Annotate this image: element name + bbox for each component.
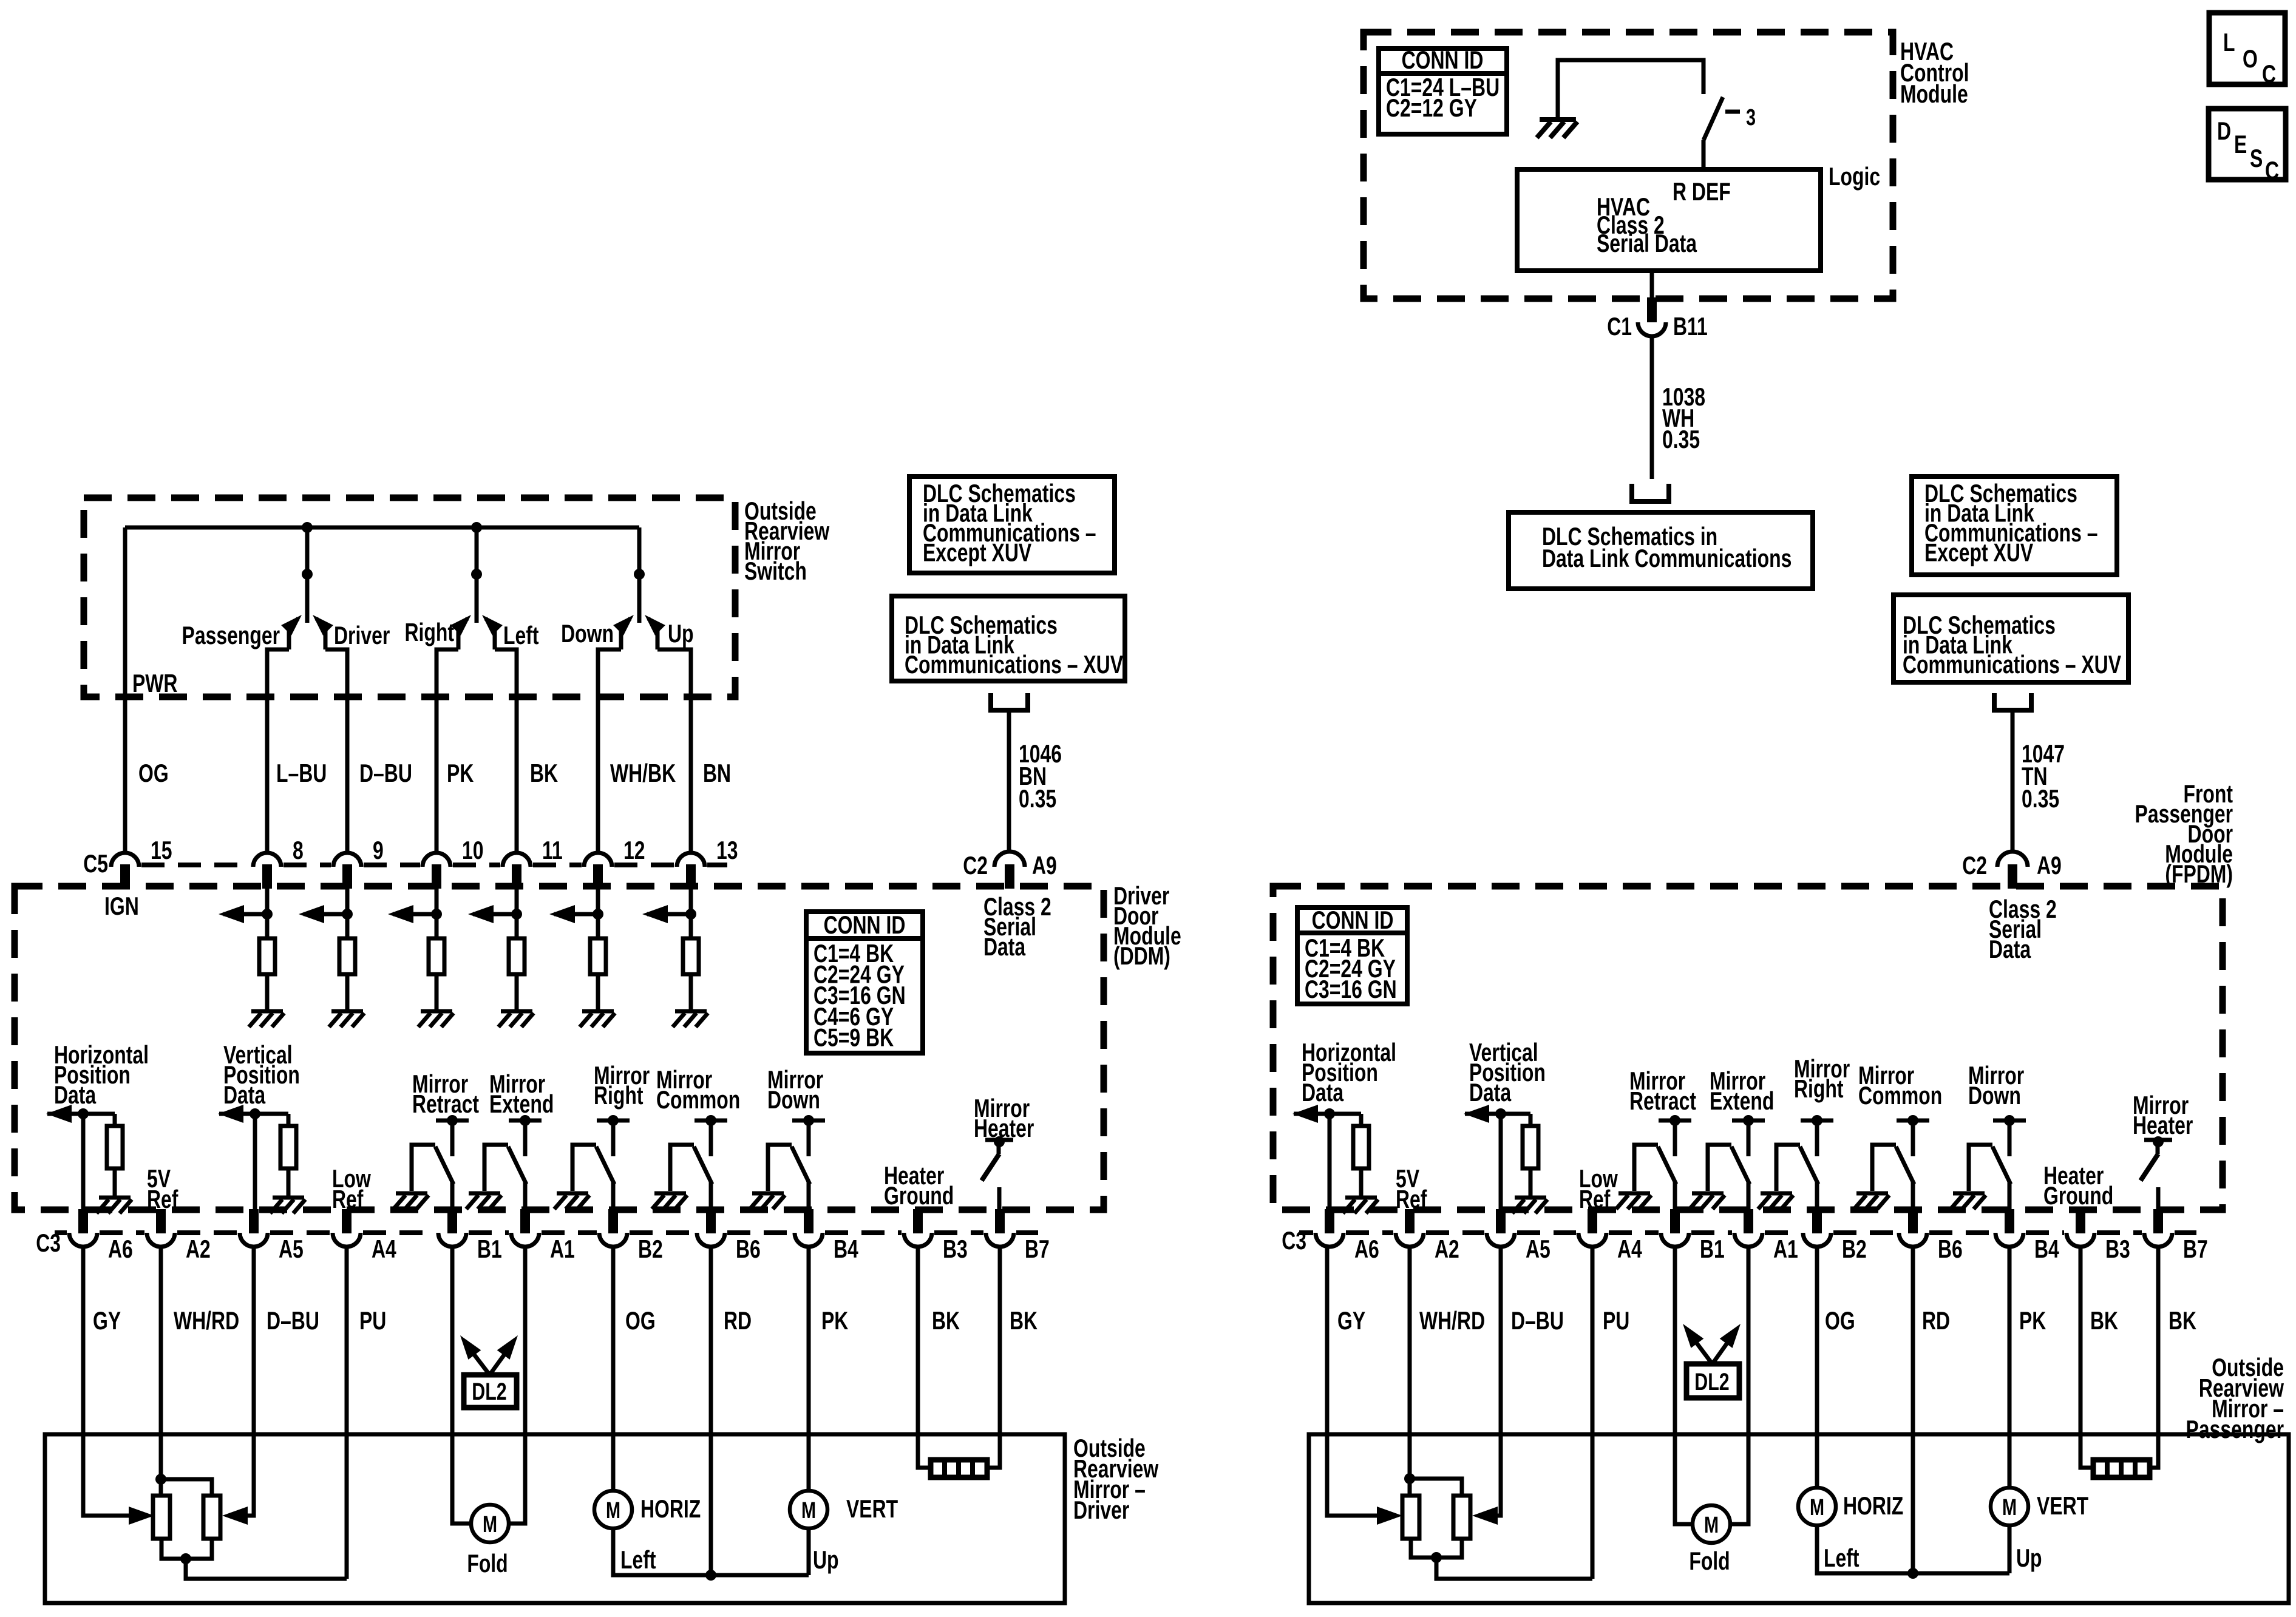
dot on passenger/driver branch bbox=[302, 569, 313, 580]
dot on right/left branch bbox=[471, 569, 482, 580]
connector C3 DDM pin B7 half bbox=[986, 1233, 1014, 1247]
Mirror Down contact dot FPDM bbox=[2004, 1115, 2015, 1126]
pull-up resistor x=572 bbox=[339, 938, 355, 974]
wire sensor bottom FPDM bbox=[1411, 1539, 1462, 1558]
svg-text:OG: OG bbox=[138, 759, 169, 787]
svg-text:B2: B2 bbox=[638, 1235, 663, 1263]
connector C1/B11 halves bbox=[1638, 322, 1666, 336]
junction dot sensor top FPDM bbox=[1404, 1473, 1415, 1484]
wire pin to pull-up node x=572 bbox=[345, 889, 350, 938]
svg-text:C5=9 BK: C5=9 BK bbox=[813, 1023, 894, 1051]
wire Up branch to connector bbox=[657, 649, 691, 853]
svg-text:RD: RD bbox=[1922, 1306, 1950, 1335]
svg-text:BK: BK bbox=[2090, 1306, 2118, 1335]
connector C3 FPDM pin B2 stub bbox=[1812, 1209, 1822, 1233]
Horizontal Position Data arrow DDM bbox=[47, 1112, 115, 1116]
switch common wire Right/Left bbox=[475, 527, 479, 623]
svg-text:Right: Right bbox=[1794, 1074, 1844, 1103]
switch common wire Passenger/Driver bbox=[305, 527, 310, 623]
connector C3 DDM pin A6 half bbox=[69, 1233, 97, 1247]
connector C3 FPDM pin B4 half bbox=[1995, 1233, 2023, 1247]
wire B1 to fold motor FPDM bbox=[1675, 1246, 1693, 1524]
Mirror Common grounded contact FPDM bbox=[1872, 1145, 1896, 1191]
Mirror Extend fixed contact bar FPDM bbox=[1732, 1119, 1765, 1123]
Mirror Heater switch FPDM stub bbox=[2156, 1140, 2160, 1154]
vert position resistor FPDM bbox=[1523, 1126, 1538, 1168]
wire OG B2 to horiz motor DDM bbox=[611, 1246, 616, 1491]
svg-text:WH/RD: WH/RD bbox=[1419, 1306, 1485, 1335]
wire PWR bus to pin 15 bbox=[123, 527, 127, 853]
connector C3 DDM pin A1 stub bbox=[520, 1209, 530, 1233]
Mirror Common fixed contact bar FPDM bbox=[1897, 1119, 1929, 1123]
svg-text:PK: PK bbox=[2019, 1306, 2046, 1335]
svg-text:DL2: DL2 bbox=[1694, 1368, 1729, 1395]
connector C3 DDM pin B2 stub bbox=[608, 1209, 618, 1233]
wire resistor to ground x=572 bbox=[345, 974, 350, 1009]
wire A5 FPDM bbox=[1499, 1114, 1503, 1210]
wire BK B3 to heater FPDM bbox=[2080, 1246, 2093, 1468]
svg-text:B7: B7 bbox=[1025, 1235, 1050, 1263]
connector C5 pin 10 half bbox=[423, 853, 450, 867]
svg-text:Common: Common bbox=[656, 1085, 740, 1114]
wire Left branch to connector bbox=[495, 649, 517, 853]
arrow GY into sensor DDM bbox=[129, 1507, 154, 1525]
svg-text:C2: C2 bbox=[963, 851, 988, 880]
svg-text:A6: A6 bbox=[108, 1235, 133, 1263]
wire Mirror Down to connector FPDM bbox=[2008, 1182, 2012, 1210]
svg-text:CONN ID: CONN ID bbox=[1312, 906, 1394, 934]
svg-text:M: M bbox=[1810, 1494, 1824, 1520]
svg-text:E: E bbox=[2234, 130, 2247, 158]
junction dot right/left common bbox=[471, 522, 482, 533]
connector C3 FPDM pin B1 half bbox=[1661, 1233, 1689, 1247]
svg-text:OG: OG bbox=[1825, 1306, 1855, 1335]
FPDM CONN ID box bbox=[1297, 907, 1407, 1004]
wire Right branch to connector bbox=[436, 649, 458, 853]
Mirror Common fixed contact bar DDM bbox=[695, 1119, 727, 1123]
svg-text:L: L bbox=[2223, 28, 2235, 56]
wire to horiz resistor DDM bbox=[113, 1114, 117, 1126]
horizontal motor DDM bbox=[594, 1491, 632, 1528]
svg-text:15: 15 bbox=[151, 836, 172, 864]
junction dot pull-up x=1138 bbox=[685, 909, 696, 920]
svg-text:Ref: Ref bbox=[1396, 1185, 1427, 1213]
junction dot pull-up x=719 bbox=[431, 909, 442, 920]
wire BK B3 to heater DDM bbox=[918, 1246, 931, 1468]
connector C3 FPDM pin B7 half bbox=[2144, 1233, 2172, 1247]
svg-text:Fold: Fold bbox=[467, 1549, 508, 1578]
Mirror Right switch blade FPDM bbox=[1800, 1147, 1818, 1184]
Mirror Down ground DDM bbox=[750, 1193, 785, 1209]
svg-text:M: M bbox=[483, 1511, 497, 1537]
DLC Except XUV box right bbox=[1912, 476, 2117, 575]
junction dot vert pos FPDM bbox=[1495, 1108, 1506, 1119]
connector C3 FPDM pin B1 stub bbox=[1670, 1209, 1680, 1233]
HVAC logic box bbox=[1517, 169, 1821, 271]
svg-text:B3: B3 bbox=[943, 1235, 968, 1263]
wire BK B7 to heater DDM bbox=[987, 1246, 1000, 1468]
connector C3 FPDM pin B6 half bbox=[1899, 1233, 1927, 1247]
junction dot passenger/driver common bbox=[302, 522, 313, 533]
off-page bracket right XUV bbox=[1994, 693, 2031, 710]
fold motor DDM bbox=[471, 1505, 509, 1542]
junction dot pull-up x=985 bbox=[593, 909, 603, 920]
svg-text:A2: A2 bbox=[1435, 1235, 1459, 1263]
wire vert resistor to ground FPDM bbox=[1529, 1168, 1533, 1196]
ground vert position FPDM bbox=[1512, 1198, 1547, 1213]
mirror heater element DDM bbox=[931, 1460, 987, 1477]
svg-text:C3: C3 bbox=[36, 1229, 61, 1257]
connector C3 DDM pin B3 stub bbox=[913, 1209, 923, 1233]
connector C3 DDM pin B7 stub bbox=[995, 1209, 1005, 1233]
svg-text:Data: Data bbox=[223, 1080, 265, 1109]
svg-text:Data: Data bbox=[1302, 1078, 1343, 1107]
svg-text:D–BU: D–BU bbox=[359, 759, 412, 787]
Mirror Common contact stub FPDM bbox=[1911, 1120, 1915, 1156]
Mirror Right grounded contact FPDM bbox=[1776, 1145, 1800, 1191]
svg-text:0.35: 0.35 bbox=[2022, 784, 2059, 813]
svg-text:WH/BK: WH/BK bbox=[610, 759, 676, 787]
svg-text:BK: BK bbox=[932, 1306, 960, 1335]
junction dot pull-up x=440 bbox=[262, 909, 273, 920]
Mirror Common switch blade FPDM bbox=[1896, 1147, 1914, 1184]
wire sensor common to PU A4 FPDM bbox=[1436, 1558, 1592, 1579]
svg-text:Logic: Logic bbox=[1829, 162, 1880, 191]
Mirror Extend contact dot DDM bbox=[520, 1115, 531, 1126]
svg-text:A5: A5 bbox=[279, 1235, 304, 1263]
junction dot horiz pos DDM bbox=[78, 1108, 89, 1119]
connector C5 pin 9 half bbox=[333, 853, 361, 867]
svg-text:M: M bbox=[606, 1497, 620, 1524]
HVAC CONN ID box bbox=[1379, 49, 1507, 134]
wire RD B6 DDM bbox=[709, 1246, 713, 1575]
Mirror Heater switch DDM contact bar bbox=[985, 1138, 1013, 1142]
Mirror Right contact stub FPDM bbox=[1815, 1120, 1819, 1156]
svg-text:Right: Right bbox=[594, 1081, 644, 1110]
svg-text:0.35: 0.35 bbox=[1662, 425, 1700, 453]
Outside Rearview Mirror Switch dashed box bbox=[84, 498, 735, 697]
svg-text:Ref: Ref bbox=[1579, 1185, 1611, 1213]
connector C3 DDM pin A2 half bbox=[147, 1233, 175, 1247]
DDM CONN ID box bbox=[806, 912, 923, 1053]
wire Mirror Right to connector DDM bbox=[611, 1182, 616, 1210]
Mirror Right ground DDM bbox=[554, 1193, 589, 1209]
wire to vert resistor DDM bbox=[287, 1114, 291, 1126]
Mirror Extend switch blade DDM bbox=[508, 1147, 526, 1184]
svg-text:Ref: Ref bbox=[332, 1185, 364, 1213]
svg-text:PK: PK bbox=[447, 759, 474, 787]
svg-text:BK: BK bbox=[1010, 1306, 1038, 1335]
connector C3 FPDM pin A2 stub bbox=[1405, 1209, 1415, 1233]
wire horiz resistor to ground DDM bbox=[113, 1168, 117, 1196]
DESC reference box bbox=[2209, 109, 2286, 180]
DLC XUV box left bbox=[892, 596, 1125, 681]
connector row C5 dashed line bbox=[141, 863, 727, 867]
Mirror Extend contact stub FPDM bbox=[1747, 1120, 1751, 1156]
Mirror Right fixed contact bar FPDM bbox=[1801, 1119, 1833, 1123]
position sensor element left DDM bbox=[153, 1496, 170, 1539]
connector C5 pin 12 stub bbox=[593, 864, 603, 889]
switch Left blade with arrowhead bbox=[486, 619, 495, 649]
svg-text:DL2: DL2 bbox=[472, 1378, 506, 1405]
wire vert motor down DDM bbox=[807, 1528, 811, 1575]
wire D-BU A5 to sensor FPDM bbox=[1495, 1246, 1501, 1516]
Mirror Retract switch blade DDM bbox=[435, 1147, 453, 1184]
wire pin to pull-up node x=985 bbox=[596, 889, 600, 938]
Mirror Extend ground FPDM bbox=[1690, 1193, 1725, 1209]
connector C3 FPDM pin A1 stub bbox=[1744, 1209, 1753, 1233]
connector C3 DDM pin B4 half bbox=[795, 1233, 823, 1247]
junction dot horiz pos FPDM bbox=[1324, 1108, 1335, 1119]
svg-text:VERT: VERT bbox=[2037, 1491, 2088, 1520]
Mirror Down contact dot DDM bbox=[803, 1115, 814, 1126]
wire 1038 from B11 to DLC bbox=[1650, 334, 1654, 479]
svg-text:Left: Left bbox=[503, 621, 539, 649]
svg-text:PU: PU bbox=[1603, 1306, 1629, 1335]
connector C3 FPDM pin A5 stub bbox=[1496, 1209, 1506, 1233]
svg-text:D–BU: D–BU bbox=[1511, 1306, 1564, 1335]
svg-text:OG: OG bbox=[625, 1306, 656, 1335]
junction dot pull-up x=572 bbox=[342, 909, 353, 920]
off-page bracket to DLC schematics bbox=[1632, 484, 1669, 501]
arrow GY into sensor FPDM bbox=[1377, 1507, 1402, 1525]
wire PU A4 DDM bbox=[345, 1246, 349, 1579]
svg-text:9: 9 bbox=[373, 836, 384, 864]
Driver Door Module dashed box bbox=[15, 886, 1104, 1210]
wire Mirror Heater to B7 FPDM bbox=[2156, 1187, 2161, 1210]
connector C5 pin 8 stub bbox=[262, 864, 272, 889]
svg-text:A4: A4 bbox=[372, 1235, 396, 1263]
connector C3 DDM pin B3 half bbox=[904, 1233, 932, 1247]
svg-text:Ground: Ground bbox=[2043, 1181, 2113, 1210]
wire GY A6 to position sensor FPDM bbox=[1327, 1246, 1379, 1516]
wire sensor bottom left DDM bbox=[161, 1539, 212, 1559]
Mirror Extend contact stub DDM bbox=[523, 1120, 528, 1156]
position sensor element right DDM bbox=[203, 1496, 220, 1539]
switch common wire Down/Up bbox=[637, 527, 642, 623]
svg-text:B2: B2 bbox=[1842, 1235, 1867, 1263]
svg-text:3: 3 bbox=[1746, 104, 1756, 131]
DLC Except XUV box left bbox=[909, 476, 1115, 573]
svg-text:BK: BK bbox=[530, 759, 558, 787]
horizontal motor FPDM bbox=[1798, 1488, 1836, 1525]
connector C2/A9 DDM half bbox=[994, 852, 1025, 867]
Mirror Extend fixed contact bar DDM bbox=[509, 1119, 542, 1123]
Mirror Extend contact dot FPDM bbox=[1743, 1115, 1754, 1126]
junction dot sensor bottom FPDM bbox=[1431, 1552, 1442, 1563]
connector C5 pin 11 stub bbox=[512, 864, 521, 889]
wire BK B7 to heater FPDM bbox=[2150, 1246, 2158, 1468]
wire R DEF switch to logic box bbox=[1702, 140, 1706, 169]
svg-text:B1: B1 bbox=[1700, 1235, 1725, 1263]
connector C3 DDM pin A5 stub bbox=[249, 1209, 259, 1233]
ground vert position DDM bbox=[270, 1198, 305, 1213]
wire Driver branch to connector bbox=[325, 649, 347, 853]
connector C3 DDM pin B6 stub bbox=[706, 1209, 716, 1233]
svg-text:C3: C3 bbox=[1282, 1226, 1306, 1255]
svg-text:10: 10 bbox=[462, 836, 484, 864]
wire pin to pull-up node x=719 bbox=[435, 889, 439, 938]
junction dot motors common DDM bbox=[705, 1570, 716, 1581]
svg-text:B11: B11 bbox=[1673, 312, 1708, 341]
wire pin to pull-up node x=440 bbox=[265, 889, 270, 938]
ground pull-up x=440 bbox=[249, 1011, 284, 1027]
connector C5 pin 15 stub bbox=[120, 864, 130, 889]
connector C3 FPDM pin B7 stub bbox=[2153, 1209, 2163, 1233]
svg-text:M: M bbox=[801, 1497, 816, 1524]
Mirror Right contact stub DDM bbox=[611, 1120, 616, 1156]
wire vert resistor to ground DDM bbox=[287, 1168, 291, 1196]
wire sensor top jumper DDM bbox=[161, 1479, 212, 1496]
connector C3 FPDM pin A6 half bbox=[1316, 1233, 1343, 1247]
connector row C3 DDM dashed line bbox=[55, 1230, 1038, 1235]
arrow D-BU into sensor FPDM bbox=[1472, 1507, 1498, 1525]
svg-text:Extend: Extend bbox=[1710, 1086, 1774, 1115]
junction dot pull-up x=851 bbox=[511, 909, 522, 920]
off-page bracket left XUV bbox=[991, 693, 1028, 710]
svg-text:Up: Up bbox=[813, 1545, 839, 1574]
svg-text:BN: BN bbox=[703, 759, 731, 787]
wire WH/RD A2 to sensor top FPDM bbox=[1408, 1246, 1412, 1496]
connector C3 FPDM pin B2 half bbox=[1803, 1233, 1831, 1247]
ground pull-up x=851 bbox=[498, 1011, 534, 1027]
wire sensor top jumper FPDM bbox=[1410, 1479, 1462, 1496]
svg-text:Passenger: Passenger bbox=[2186, 1415, 2284, 1443]
Horizontal Position Data arrow FPDM bbox=[1294, 1112, 1361, 1116]
ground pull-up x=719 bbox=[418, 1011, 453, 1027]
wire A1 to fold motor FPDM bbox=[1730, 1246, 1748, 1524]
svg-text:A9: A9 bbox=[1032, 851, 1057, 880]
connector C3 DDM pin B1 stub bbox=[447, 1209, 457, 1233]
switch Up blade with arrowhead bbox=[648, 619, 657, 649]
svg-text:M: M bbox=[1704, 1512, 1719, 1538]
switch Driver blade with arrowhead bbox=[316, 619, 325, 649]
wire Mirror Extend to connector FPDM bbox=[1747, 1182, 1751, 1210]
Mirror Common grounded contact DDM bbox=[670, 1145, 694, 1191]
wire to horiz resistor FPDM bbox=[1359, 1114, 1364, 1126]
fold motor FPDM bbox=[1693, 1505, 1730, 1543]
svg-text:Passenger: Passenger bbox=[182, 621, 280, 649]
svg-text:Ref: Ref bbox=[147, 1185, 178, 1213]
wire A5 DDM bbox=[253, 1114, 257, 1210]
wire logic box to connector C1 bbox=[1650, 271, 1654, 300]
wire 1047 XUV to FPDM C2 bbox=[2011, 710, 2015, 853]
Mirror Heater switch FPDM dot bbox=[2153, 1136, 2164, 1147]
connector C3 DDM pin B4 stub bbox=[804, 1209, 813, 1233]
Mirror Extend grounded contact DDM bbox=[484, 1145, 508, 1191]
connector C3 FPDM pin B3 half bbox=[2067, 1233, 2094, 1247]
svg-text:Up: Up bbox=[668, 619, 694, 648]
wire A1 to fold motor DDM bbox=[509, 1246, 525, 1524]
Mirror Heater switch FPDM blade bbox=[2141, 1154, 2158, 1181]
svg-text:Right: Right bbox=[404, 618, 454, 646]
Mirror Retract fixed contact bar FPDM bbox=[1659, 1119, 1691, 1123]
connector C3 FPDM pin A2 half bbox=[1396, 1233, 1424, 1247]
svg-text:HORIZ: HORIZ bbox=[640, 1494, 701, 1523]
wire resistor to ground x=851 bbox=[515, 974, 519, 1009]
wire B1 to fold motor DDM bbox=[452, 1246, 471, 1524]
wire Mirror Right to connector FPDM bbox=[1815, 1182, 1819, 1210]
horiz position resistor DDM bbox=[107, 1126, 123, 1168]
connector stub C1/B11 bbox=[1647, 297, 1657, 322]
svg-text:13: 13 bbox=[716, 836, 738, 864]
Mirror Heater switch FPDM contact bar bbox=[2144, 1138, 2172, 1142]
Mirror Retract grounded contact DDM bbox=[412, 1145, 435, 1191]
Mirror Right contact dot DDM bbox=[608, 1115, 619, 1126]
svg-text:B6: B6 bbox=[736, 1235, 761, 1263]
svg-text:Serial Data: Serial Data bbox=[1597, 229, 1697, 257]
svg-text:RD: RD bbox=[724, 1306, 752, 1335]
DLC XUV box right bbox=[1894, 595, 2128, 682]
svg-text:8: 8 bbox=[293, 836, 304, 864]
R DEF switch blade bbox=[1703, 97, 1723, 140]
svg-text:Module: Module bbox=[1900, 80, 1968, 108]
wire pin to pull-up node x=851 bbox=[515, 889, 519, 938]
svg-text:Retract: Retract bbox=[1629, 1086, 1696, 1115]
svg-text:12: 12 bbox=[623, 836, 645, 864]
Mirror Down fixed contact bar FPDM bbox=[1993, 1119, 2026, 1123]
connector C5 pin 12 half bbox=[584, 853, 612, 867]
Mirror Down contact stub DDM bbox=[807, 1120, 811, 1156]
wire PK B4 to vert motor FPDM bbox=[2008, 1246, 2012, 1488]
svg-text:GY: GY bbox=[1337, 1306, 1365, 1335]
wire WH/RD A2 to sensor top DDM bbox=[159, 1246, 163, 1496]
switch Right blade with arrowhead bbox=[458, 619, 467, 649]
svg-text:Down: Down bbox=[767, 1085, 820, 1114]
svg-text:Data: Data bbox=[983, 932, 1025, 961]
DL2 arrows FPDM bbox=[1688, 1331, 1711, 1363]
svg-text:B3: B3 bbox=[2105, 1235, 2130, 1263]
DL2 arrows DDM bbox=[465, 1343, 489, 1374]
Mirror Down contact stub FPDM bbox=[2008, 1120, 2012, 1156]
vertical motor DDM bbox=[790, 1491, 827, 1528]
connector C3 FPDM pin B3 stub bbox=[2076, 1209, 2085, 1233]
svg-text:Fold: Fold bbox=[1689, 1547, 1730, 1575]
connector C2/A9 DDM stub bbox=[1005, 864, 1014, 889]
Mirror Extend grounded contact FPDM bbox=[1708, 1145, 1731, 1191]
connector C2/A9 FPDM stub bbox=[2008, 864, 2017, 889]
Mirror Heater switch DDM stub bbox=[997, 1140, 1001, 1154]
svg-text:CONN ID: CONN ID bbox=[824, 910, 906, 939]
svg-text:Ground: Ground bbox=[884, 1181, 954, 1210]
wire Mirror Retract to connector FPDM bbox=[1673, 1182, 1677, 1210]
wire Mirror Retract to connector DDM bbox=[450, 1182, 455, 1210]
wire D-BU A5 to sensor DDM bbox=[245, 1246, 254, 1516]
svg-text:Data Link Communications: Data Link Communications bbox=[1542, 544, 1792, 572]
LOC reference box bbox=[2209, 13, 2285, 84]
Mirror Common contact stub DDM bbox=[709, 1120, 713, 1156]
connector C3 FPDM pin B6 stub bbox=[1908, 1209, 1918, 1233]
wire Mirror Extend to connector DDM bbox=[523, 1182, 528, 1210]
svg-text:R DEF: R DEF bbox=[1673, 177, 1731, 206]
Mirror Common switch blade DDM bbox=[694, 1147, 712, 1184]
connector C3 DDM pin B6 half bbox=[697, 1233, 725, 1247]
connector C5 pin 13 half bbox=[677, 853, 705, 867]
Mirror Right contact dot FPDM bbox=[1812, 1115, 1822, 1126]
connector C3 FPDM pin B4 stub bbox=[2005, 1209, 2014, 1233]
svg-text:B7: B7 bbox=[2183, 1235, 2208, 1263]
connector C3 DDM pin B1 half bbox=[438, 1233, 466, 1247]
vertical motor FPDM bbox=[1991, 1488, 2028, 1525]
wire Mirror Common to connector DDM bbox=[709, 1182, 713, 1210]
mirror heater element FPDM bbox=[2093, 1460, 2150, 1477]
connector C3 DDM pin A4 stub bbox=[342, 1209, 352, 1233]
svg-text:Up: Up bbox=[2016, 1544, 2042, 1572]
Mirror Common ground FPDM bbox=[1854, 1193, 1889, 1209]
svg-text:A1: A1 bbox=[1773, 1235, 1798, 1263]
wire GY A6 to position sensor DDM bbox=[83, 1246, 131, 1516]
svg-text:Common: Common bbox=[1858, 1081, 1942, 1110]
